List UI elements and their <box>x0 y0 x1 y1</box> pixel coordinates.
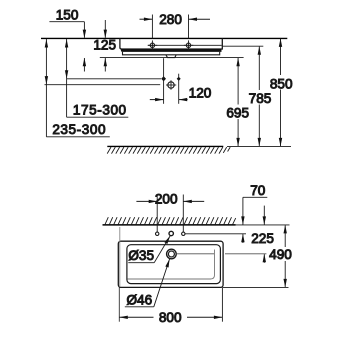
supply reference line lower <box>45 84 161 86</box>
dimension 120 <box>150 58 212 104</box>
svg-text:280: 280 <box>159 12 182 27</box>
svg-text:785: 785 <box>249 91 272 106</box>
extension line at 785 level <box>222 45 263 47</box>
dimension 800 <box>119 227 222 325</box>
floor extension line <box>227 145 291 147</box>
dimension 490 <box>269 225 292 288</box>
wall line with hatching (front view) <box>103 217 236 225</box>
bowl bottom slope line (light) <box>128 250 215 280</box>
label O46 with leader <box>125 259 170 308</box>
svg-text:150: 150 <box>56 7 79 22</box>
dimension 280 <box>140 12 211 38</box>
supply connection circle right (front view) <box>182 232 185 235</box>
basin side profile body <box>120 38 222 54</box>
dimension 785 <box>249 46 272 146</box>
top reference line (basin top level, side view) <box>41 37 287 39</box>
basin inner rim line (side view) <box>148 44 222 46</box>
svg-text:225: 225 <box>251 231 274 246</box>
basin inner bowl outline <box>127 245 220 284</box>
dimension 70 <box>241 183 267 243</box>
svg-text:70: 70 <box>250 183 266 198</box>
svg-text:850: 850 <box>270 76 293 91</box>
drain trapezoid under basin <box>166 55 176 58</box>
basin outer outline (front view) <box>118 241 223 287</box>
dimension 125 <box>83 37 116 71</box>
svg-text:120: 120 <box>189 85 212 100</box>
drain point circle (side view) <box>166 80 176 90</box>
dimension 850 <box>270 38 293 146</box>
supply reference line upper <box>67 78 161 80</box>
faucet hole circle (front view) <box>169 231 173 235</box>
dimension 225 <box>251 206 274 263</box>
svg-text:Ø35: Ø35 <box>128 248 154 263</box>
supply connection circle left (front view) <box>156 232 159 235</box>
drain hole double circle (front view) <box>167 249 177 259</box>
supply diamond node right <box>177 77 181 81</box>
faucet hole circle left (side view) <box>148 40 157 50</box>
dimension 175-300 <box>65 39 128 118</box>
drain level extension line (225 reference) <box>176 253 214 255</box>
floor line with hatching <box>107 146 230 153</box>
svg-text:Ø46: Ø46 <box>126 292 152 307</box>
wall line extension right <box>236 224 290 226</box>
dimension 150 label and leader <box>49 7 107 38</box>
svg-text:235-300: 235-300 <box>52 122 106 137</box>
basin front edge extension line for 490 <box>223 286 289 288</box>
svg-text:695: 695 <box>226 106 249 121</box>
svg-text:200: 200 <box>155 192 178 207</box>
dimension 695 <box>226 58 249 147</box>
dimension 200 <box>136 192 204 232</box>
supply level extension line (70 reference) <box>185 233 246 235</box>
svg-text:800: 800 <box>159 310 182 325</box>
svg-text:175-300: 175-300 <box>73 103 127 118</box>
dimension 235-300 <box>45 39 110 137</box>
label O35 with leader <box>128 236 170 263</box>
extension line at 125/695 level <box>100 57 244 59</box>
faucet hole circle right (side view) <box>184 40 193 50</box>
supply diamond node left <box>161 76 166 81</box>
svg-text:125: 125 <box>93 37 116 52</box>
svg-text:490: 490 <box>269 247 292 262</box>
